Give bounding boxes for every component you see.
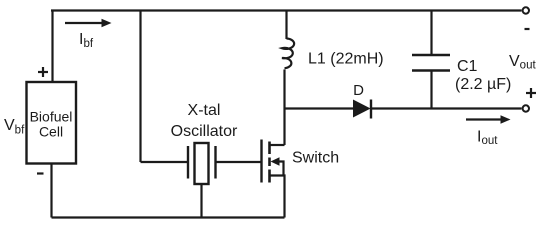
crystal X1 right plate (214, 146, 216, 179)
transistor M1 channel segments (268, 142, 271, 183)
svg-text:Oscillator: Oscillator (171, 123, 238, 140)
wire inductor bottom lead (283, 70, 285, 109)
label plus cell (38, 67, 48, 77)
svg-text:Ibf: Ibf (79, 31, 94, 50)
wire diode anode lead (285, 107, 354, 109)
inductor L1 coil (282, 39, 294, 69)
svg-text:Switch: Switch (292, 150, 339, 167)
svg-text:(2.2 µF): (2.2 µF) (455, 76, 511, 93)
svg-text:Vout: Vout (509, 53, 536, 72)
wire bottom rail (52, 216, 285, 218)
label minus output (525, 28, 530, 30)
crystal X1 left plate (187, 146, 189, 179)
wire output bottom rail (372, 107, 522, 109)
transistor M1 body arrow (271, 157, 280, 166)
transistor M1 body lead (277, 162, 284, 176)
wire crystal left lead (141, 161, 188, 163)
label plus output (526, 88, 536, 98)
label minus cell (37, 172, 44, 174)
svg-text:Cell: Cell (39, 124, 63, 140)
svg-text:Iout: Iout (477, 129, 498, 148)
wire inductor top lead (285, 11, 287, 40)
wire crystal bottom stem (200, 184, 202, 218)
transistor M1 source lead (270, 176, 285, 218)
transistor M1 drain lead (270, 144, 285, 146)
wire capacitor bottom stem (430, 71, 432, 109)
svg-text:D: D (353, 82, 364, 99)
wire top rail (51, 9, 522, 11)
crystal X1 body (195, 143, 209, 184)
diode D anode wire stub and triangle (354, 100, 370, 116)
arrow Ibf (65, 22, 104, 24)
wire node L-D-switch vertical (283, 109, 285, 146)
wire cell bottom (50, 164, 52, 218)
transistor M1 gate bar (260, 140, 262, 183)
wire cell top (51, 11, 53, 83)
wire capacitor top stem (430, 11, 432, 56)
svg-text:L1 (22mH): L1 (22mH) (308, 51, 384, 68)
capacitor C1 bottom plate (412, 69, 450, 71)
terminal output positive (523, 105, 529, 111)
svg-text:Biofuel: Biofuel (30, 109, 73, 125)
arrow Iout (466, 118, 502, 120)
diode D cathode bar (370, 100, 372, 119)
terminal output negative (523, 7, 529, 13)
capacitor C1 top plate (412, 54, 450, 56)
svg-text:X-tal: X-tal (188, 102, 221, 119)
svg-text:Vbf: Vbf (4, 117, 25, 137)
svg-text:C1: C1 (457, 58, 478, 75)
wire crystal right lead to gate (217, 161, 262, 163)
biofuel cell BF1 (27, 82, 77, 164)
wire oscillator branch vertical (139, 11, 141, 163)
